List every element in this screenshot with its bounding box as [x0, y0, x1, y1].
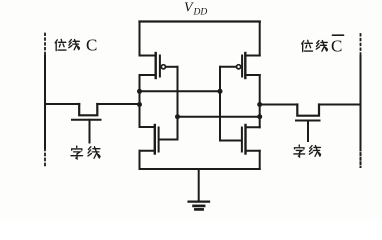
transistor N2 (right NMOS driver): [220, 125, 260, 154]
transistor P2 (right PMOS load): [220, 53, 260, 78]
junction dot right gate upper: [218, 89, 223, 94]
label word line left (CJK: 字线): [71, 146, 100, 159]
wire left node vertical (N1 source to bottom rail): [139, 151, 141, 169]
bit line C (left, dotted continuation ends): [44, 34, 46, 169]
wire right node vertical (N2 source to bottom rail): [259, 151, 261, 169]
wire left node vertical (top rail to P1 source stub): [139, 22, 141, 56]
label VDD: [184, 1, 207, 18]
svg-text:V: V: [184, 1, 194, 16]
junction dot left node bitline: [137, 102, 142, 107]
label word line right (CJK: 字线): [294, 145, 321, 157]
wire right node vertical (P2 drain to N2 drain): [259, 75, 261, 127]
transistor T2 (right access NMOS, horizontal): [296, 105, 320, 142]
label bit line C-bar (CJK: 位线 C with overline): [302, 35, 344, 51]
junction dot right node bitline: [257, 102, 262, 107]
wire right node vertical (top rail to P2 source stub): [259, 22, 261, 56]
wire left node vertical (P1 drain to N1 drain): [139, 75, 141, 127]
wire bit line C to pass transistor T1: [45, 103, 79, 105]
wire VDD top rail: [140, 20, 260, 22]
transistor N1 (left NMOS driver): [140, 125, 178, 154]
svg-text:DD: DD: [193, 8, 208, 18]
wire right gate vertical (gates of P2,N2): [219, 67, 221, 141]
junction dot right node lower: [257, 114, 262, 119]
transistor P1 (left PMOS load): [140, 53, 178, 78]
wire cross-couple lower (left gates to right node): [178, 116, 260, 118]
ground symbol: [189, 202, 209, 210]
svg-text:C: C: [331, 37, 342, 56]
wire left gate vertical (gates of P1,N1): [177, 67, 179, 140]
label bit line C (CJK: 位线 C): [55, 39, 79, 50]
junction dot left node upper: [137, 89, 142, 94]
bit line C-bar (right, dotted continuation ends): [360, 34, 362, 167]
transistor T1 (left access NMOS, horizontal): [72, 104, 101, 143]
wire cross-couple upper (left node to right gates): [140, 90, 221, 92]
wire bottom rail: [140, 168, 260, 170]
wire T2 to bit line C-bar: [319, 104, 361, 106]
wire T1 to left node: [97, 103, 139, 105]
wire right node to pass transistor T2: [260, 104, 298, 106]
svg-text:C: C: [86, 36, 97, 55]
junction dot left gate lower: [175, 114, 180, 119]
wire ground stem: [198, 169, 200, 201]
